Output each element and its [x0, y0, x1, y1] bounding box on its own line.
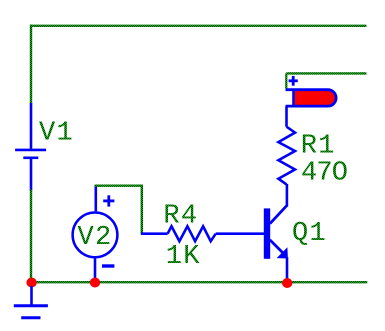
svg-text:47O: 47O [301, 158, 347, 188]
minus sign V2 [102, 264, 114, 267]
wire second rail [286, 72, 366, 74]
node junction dot V2 [90, 278, 100, 288]
ground [14, 286, 48, 318]
svg-text:V2: V2 [78, 223, 113, 253]
wire V2 to R4 (up and over) [95, 186, 142, 234]
plus sign V2 [103, 195, 114, 206]
V2 bottom pin [94, 259, 97, 279]
svg-text:R1: R1 [301, 132, 336, 162]
transistor Q1 [264, 184, 288, 279]
plus sign LED [289, 76, 298, 86]
svg-text:1K: 1K [166, 242, 201, 272]
LED anode pin [285, 73, 287, 88]
svg-text:Q1: Q1 [292, 219, 327, 249]
resistor R1 [278, 107, 295, 185]
wire bottom rail [32, 281, 368, 283]
resistor R4 [141, 226, 264, 241]
battery V1 [15, 103, 46, 191]
LED lamp red body [286, 89, 337, 107]
svg-text:R4: R4 [163, 202, 198, 232]
V2 top pin [95, 185, 98, 211]
wire left vertical (top section) [30, 25, 32, 105]
source V2 [73, 212, 118, 257]
wire top rail [31, 25, 366, 27]
wire left vertical (bottom section) [30, 190, 32, 283]
svg-text:V1: V1 [39, 118, 74, 148]
node junction dot left [26, 278, 36, 288]
node junction dot Q1 emitter [282, 278, 292, 288]
